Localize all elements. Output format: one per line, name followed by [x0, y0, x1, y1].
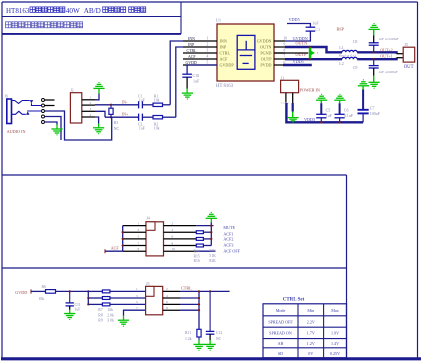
R3 designator	[114, 120, 119, 125]
svg-text:10k: 10k	[39, 297, 45, 301]
svg-text:J4: J4	[146, 216, 150, 221]
C2 value	[139, 127, 145, 131]
svg-text:2: 2	[207, 43, 209, 47]
svg-text:HT 8163: HT 8163	[216, 84, 234, 89]
junction C8 node	[373, 51, 375, 53]
wire R3 bottom	[110, 114, 112, 117]
wire jack pin3 long path	[45, 111, 112, 140]
svg-text:R9: R9	[98, 319, 103, 323]
wire R9 to J3	[110, 303, 146, 305]
connector J2	[70, 93, 81, 123]
svg-text:SPREAD OFF: SPREAD OFF	[268, 319, 293, 324]
wire jack pin4	[45, 117, 62, 141]
J2 pin stub 3	[82, 110, 95, 112]
svg-text:GVDDN: GVDDN	[257, 39, 272, 44]
R14 designator and value	[194, 249, 217, 253]
junction J4 bus row6	[210, 238, 212, 240]
J5 pin stub 1	[397, 53, 404, 55]
svg-text:OUT+1: OUT+1	[380, 53, 392, 58]
svg-text:100uF: 100uF	[370, 111, 381, 116]
net label GVDD	[15, 290, 27, 295]
connector J1	[281, 80, 299, 92]
net label ACF	[188, 55, 196, 59]
wire ACF	[105, 250, 123, 252]
svg-text:1: 1	[138, 221, 140, 225]
svg-text:HT8163: HT8163	[6, 7, 30, 15]
C12 value NC	[216, 337, 222, 341]
table row AB	[278, 341, 339, 346]
J2 pin stub 4	[82, 116, 95, 118]
wire R15 to bus	[203, 238, 211, 240]
R3 value NC	[114, 126, 120, 131]
wire C7 to bus	[362, 113, 364, 122]
junction bus row6	[198, 303, 200, 305]
J6 designator	[5, 95, 8, 99]
wire C12 stem	[209, 291, 211, 331]
svg-text:R8: R8	[98, 313, 103, 317]
wire C2 to R2	[142, 116, 153, 118]
wire PVDD thick	[283, 64, 312, 66]
wire C10 to ground	[186, 77, 188, 93]
net label MUTE	[223, 225, 235, 230]
svg-text:AB/D: AB/D	[84, 7, 101, 15]
junction J4 bus row2	[210, 224, 212, 226]
R7 designator and value	[98, 308, 113, 312]
svg-text:R15: R15	[194, 254, 200, 258]
resistor R15	[196, 237, 203, 240]
net label ACF J4	[111, 245, 120, 250]
junction C9 node	[373, 58, 375, 60]
C10 designator	[193, 73, 200, 78]
wire J2 pin3 jog	[95, 111, 105, 117]
net label BSP	[337, 27, 345, 32]
wire C9 down	[373, 59, 375, 65]
net label ACF OFF	[223, 248, 240, 253]
svg-text:NC: NC	[114, 126, 120, 131]
svg-text:5: 5	[138, 235, 140, 239]
jack pin circles	[42, 99, 45, 124]
net label IN+	[122, 112, 129, 117]
svg-text:2: 2	[166, 287, 168, 291]
svg-text:R6: R6	[42, 285, 47, 289]
power symbol above C7	[358, 79, 369, 86]
svg-text:1: 1	[136, 287, 138, 291]
wire OUTN after L1	[357, 52, 396, 53]
svg-text:C3: C3	[315, 27, 320, 32]
J3 designator	[146, 281, 150, 286]
svg-text:1.7V: 1.7V	[307, 331, 315, 336]
net label VDD5 at PVDD	[293, 59, 304, 64]
net label CTRL bottom	[181, 286, 192, 291]
svg-text:10: 10	[172, 247, 176, 251]
capacitor C6	[335, 114, 345, 118]
junction J4 bus row4	[210, 231, 212, 233]
svg-text:1uF: 1uF	[139, 98, 145, 102]
ground under C11	[64, 314, 75, 321]
J1 pin left	[285, 93, 287, 103]
jack ring to pin	[28, 110, 41, 113]
svg-text:1.2V: 1.2V	[307, 341, 315, 346]
svg-text:CTRL: CTRL	[181, 286, 192, 291]
svg-text:3: 3	[207, 49, 209, 53]
wire INP vertical	[176, 47, 183, 117]
svg-text:INN: INN	[188, 37, 195, 41]
wire C12 to ground	[209, 334, 211, 344]
capacitor C3	[306, 27, 316, 31]
J4 right pin numbers	[172, 221, 176, 251]
wire J4 right bus	[210, 218, 212, 245]
power symbol above C8	[369, 23, 380, 30]
svg-text:1.9V: 1.9V	[331, 331, 339, 336]
C3 value 1uF	[312, 20, 319, 25]
title row1 text HT8163 40W AB/D amplifier	[6, 7, 146, 15]
svg-text:GVDDP: GVDDP	[220, 63, 235, 68]
wire power bus	[286, 103, 363, 122]
svg-text:ACF2: ACF2	[223, 237, 233, 242]
net label GVDD tick	[30, 289, 32, 293]
svg-text:2.2V: 2.2V	[307, 319, 315, 324]
title row2 company name	[6, 22, 83, 28]
wire R1 right	[163, 104, 171, 106]
svg-text:10: 10	[284, 37, 288, 41]
svg-text:C9: C9	[353, 65, 358, 70]
power label VDD5 top	[289, 17, 300, 22]
svg-text:PGND: PGND	[260, 51, 271, 56]
L1 designator	[339, 45, 343, 50]
title box right edge	[180, 2, 182, 34]
resistor R11	[197, 329, 201, 337]
C9 designator	[353, 65, 358, 70]
svg-text:L2: L2	[339, 61, 343, 66]
svg-text:VDD5: VDD5	[289, 17, 300, 22]
J2 designator	[70, 89, 73, 93]
svg-text:R7: R7	[98, 308, 103, 312]
ground under R11	[193, 344, 204, 351]
resistor R14	[196, 231, 203, 234]
svg-text:5: 5	[207, 61, 209, 65]
power symbol above C5	[316, 94, 327, 100]
wire J4 row10	[196, 250, 215, 252]
U1 pin numbers right	[284, 37, 288, 65]
svg-text:R3: R3	[114, 120, 119, 125]
svg-text:30K: 30K	[209, 249, 216, 253]
ground under J2 pin4	[93, 128, 104, 134]
svg-text:10k: 10k	[154, 98, 160, 102]
connector J3	[146, 286, 163, 314]
jack tip switch arrow	[30, 100, 34, 103]
svg-text:OUT+2: OUT+2	[380, 47, 392, 52]
junction J4 left 3	[122, 231, 124, 233]
net label OUT+2	[380, 47, 392, 52]
R16 designator and value	[194, 259, 217, 263]
svg-text:C10: C10	[193, 73, 200, 78]
R1 designator	[154, 94, 159, 98]
table row SPREAD ON	[269, 331, 339, 336]
wire R6 to bus	[56, 290, 89, 292]
svg-text:Mode: Mode	[276, 308, 286, 313]
wire C11 to ground	[69, 306, 71, 314]
wire GVDDN to C3	[285, 31, 310, 41]
svg-text:ACF3: ACF3	[223, 242, 233, 247]
wire J4 row2 to bus	[196, 225, 213, 227]
sheet border left	[1, 2, 3, 359]
svg-text:0V: 0V	[308, 351, 313, 356]
wire C1 to R1	[142, 104, 153, 106]
wire R3 top	[110, 105, 112, 108]
net label OUTP	[296, 52, 308, 57]
junction bus row8	[198, 309, 200, 311]
wire C3 to VDD5	[287, 24, 310, 28]
wire GVDD to R6	[31, 290, 46, 292]
J3 right pin stubs	[163, 291, 180, 310]
C8 value	[379, 37, 399, 41]
svg-text:6: 6	[166, 300, 168, 304]
ground under jack	[51, 129, 62, 135]
svg-text:IN-: IN-	[122, 99, 128, 104]
net label GVDDN	[293, 36, 308, 41]
jack pin stub 1	[45, 99, 55, 101]
junction OUTP-speaker	[308, 58, 310, 60]
svg-text:INP: INP	[220, 45, 227, 50]
wire OUTN thick	[285, 47, 342, 52]
svg-text:1uF or0.68uF: 1uF or0.68uF	[379, 70, 398, 74]
audio jack J6 body	[7, 99, 12, 124]
net label AUDIO IN	[7, 129, 26, 134]
svg-text:3: 3	[136, 294, 138, 298]
resistor R3	[109, 108, 113, 114]
svg-text:4: 4	[172, 228, 174, 232]
svg-text:7: 7	[136, 306, 138, 310]
svg-text:C8: C8	[353, 39, 358, 44]
wire C6 to bus	[339, 118, 341, 123]
U1 left pin stubs 1-5	[183, 41, 217, 65]
svg-text:J5: J5	[404, 42, 408, 47]
wire C7 stem	[362, 86, 364, 110]
wire bus to R9	[88, 303, 102, 305]
C7 value 100uF	[370, 111, 381, 116]
R11 value 1.2k	[185, 337, 192, 341]
jack pin stub 2	[45, 105, 55, 107]
J3 right pin numbers	[166, 287, 168, 310]
svg-text:J2: J2	[70, 89, 73, 93]
L2 designator	[339, 61, 343, 66]
svg-text:OUTN: OUTN	[260, 45, 271, 50]
svg-text:1uF: 1uF	[75, 307, 81, 311]
section divider vertical	[346, 175, 348, 359]
svg-text:R16: R16	[194, 259, 200, 263]
capacitor C12	[206, 331, 215, 334]
wire R14 to bus	[203, 231, 211, 233]
R1 value 10k	[154, 98, 160, 102]
svg-text:3.0k: 3.0k	[107, 319, 114, 323]
jack tip to pin	[31, 103, 41, 105]
net label INN	[188, 37, 195, 41]
op-amp U1 body	[217, 24, 274, 81]
svg-text:1uF: 1uF	[312, 20, 319, 25]
svg-text:Min: Min	[307, 308, 314, 313]
net label ACF2	[223, 237, 233, 242]
wire R8 to J3	[110, 297, 146, 299]
jack tip contact	[12, 101, 30, 104]
title box middle line	[2, 16, 181, 18]
J4 right pin stubs	[164, 226, 197, 252]
svg-text:ACF: ACF	[188, 55, 196, 59]
junction C11 top	[69, 290, 71, 292]
svg-text:1.4V: 1.4V	[331, 341, 339, 346]
junction R3 bottom	[110, 116, 112, 118]
junction J4 left 5	[122, 238, 124, 240]
R2 value 10k	[154, 127, 160, 131]
capacitor C2	[139, 114, 143, 121]
svg-text:C5: C5	[326, 108, 331, 113]
wire C8 to power symbol	[373, 29, 375, 42]
power net label VDD5 bus	[304, 117, 315, 122]
svg-text:0.25V: 0.25V	[330, 351, 340, 356]
J2 pin stub 1	[82, 99, 95, 101]
table header row	[276, 308, 339, 313]
L value Bead or 0 ohm	[339, 53, 356, 57]
C12 designator	[216, 331, 222, 335]
ground under J3 pin7	[118, 320, 129, 327]
connector J4	[146, 222, 164, 256]
net label POWER IN	[300, 87, 320, 92]
svg-text:IN+: IN+	[122, 112, 129, 117]
svg-text:R11: R11	[185, 331, 191, 335]
svg-text:J6: J6	[5, 95, 8, 99]
R15 designator and value	[194, 254, 217, 258]
svg-text:3: 3	[138, 228, 140, 232]
svg-text:10k: 10k	[107, 308, 113, 312]
capacitor C9	[369, 66, 379, 68]
svg-text:PVDD: PVDD	[260, 63, 271, 68]
J1 pin right	[292, 93, 294, 103]
R2 designator	[154, 123, 159, 127]
svg-text:CTRL Set: CTRL Set	[283, 298, 305, 303]
connector J5	[403, 47, 415, 62]
svg-text:40W: 40W	[66, 7, 80, 15]
svg-text:VDD5: VDD5	[304, 117, 315, 122]
ground under C12	[205, 344, 216, 351]
wire GVDDP to C10	[187, 65, 217, 74]
inverted ground above J4 bus	[206, 212, 217, 219]
C9 value	[379, 70, 398, 74]
U1 internal charge-pump symbol	[237, 35, 255, 69]
J4 designator	[146, 216, 150, 221]
jack ring contact	[12, 111, 26, 114]
svg-text:ACF OFF: ACF OFF	[223, 248, 240, 253]
junction R3 top	[110, 104, 112, 106]
svg-text:C6: C6	[344, 108, 349, 113]
C5 designator	[326, 108, 331, 113]
junction J4 left 7	[122, 244, 124, 246]
wire IN- line	[95, 104, 139, 106]
svg-text:9: 9	[138, 247, 140, 251]
capacitor C11	[66, 303, 74, 306]
wire J3 right bus	[198, 291, 200, 329]
table row SD	[278, 351, 340, 356]
svg-text:MUTE: MUTE	[223, 225, 235, 230]
ground under J1	[287, 118, 298, 123]
svg-text:1.2k: 1.2k	[185, 337, 192, 341]
net label ACF3	[223, 242, 233, 247]
svg-text:INP: INP	[188, 43, 195, 47]
speaker symbol across outputs	[309, 47, 318, 59]
C1 designator	[138, 94, 143, 98]
junction R7 bus	[87, 290, 89, 292]
J4 notch	[146, 222, 155, 231]
wire bus to R7	[88, 290, 102, 292]
svg-text:INN: INN	[220, 39, 227, 44]
svg-text:OUT: OUT	[404, 65, 414, 70]
ground under C10	[182, 93, 193, 100]
resistor R7	[102, 290, 110, 293]
U1 pin numbers left	[207, 37, 209, 65]
J1 designator	[281, 75, 285, 80]
J2 pin stub 2	[82, 104, 95, 106]
C1 value	[139, 98, 145, 102]
C6 value 0.1uF	[344, 113, 354, 118]
R9 designator and value	[98, 319, 114, 323]
svg-text:1: 1	[207, 37, 209, 41]
svg-text:AUDIO IN: AUDIO IN	[7, 129, 26, 134]
wire J3 row4 to bus	[180, 297, 199, 299]
svg-text:J3: J3	[146, 281, 150, 286]
svg-text:7: 7	[138, 241, 140, 245]
wire R16 to bus	[203, 245, 211, 247]
wire INN vertical	[170, 41, 183, 105]
sheet border bottom thick	[1, 357, 421, 360]
wire J1 right pin down	[292, 103, 294, 112]
junction C12 top	[209, 290, 211, 292]
wire J3 row8 to bus	[180, 309, 199, 311]
J5 pin stub 2	[397, 57, 404, 59]
svg-text:L1: L1	[339, 45, 343, 50]
wire left bus J3	[87, 291, 89, 304]
svg-text:VDD5: VDD5	[293, 59, 304, 64]
junction bus row4	[198, 297, 200, 299]
net label ACF tick	[104, 249, 106, 253]
C8 designator	[353, 39, 358, 44]
resistor R8	[102, 297, 110, 300]
svg-text:Max: Max	[331, 308, 339, 313]
R8 designator and value	[98, 313, 114, 317]
J2 pin numbers	[90, 96, 92, 117]
svg-text:SD: SD	[278, 351, 283, 356]
U1 part number HT 8163	[216, 84, 234, 89]
C5 value 1uF	[326, 113, 333, 118]
svg-text:J1: J1	[281, 75, 285, 80]
J4 left pin stubs	[123, 226, 146, 252]
svg-text:0.1uF: 0.1uF	[344, 113, 354, 118]
net label OUT+1	[380, 53, 392, 58]
wire OUTP after L2	[357, 58, 396, 60]
wire J3 row6 to bus	[180, 303, 199, 305]
svg-text:CTRL: CTRL	[187, 49, 198, 53]
junction CTRL bus top	[198, 290, 200, 292]
net label IN-	[122, 99, 128, 104]
svg-text:BSP: BSP	[337, 27, 345, 32]
wire C5 to bus	[320, 118, 322, 123]
U1 right pin names inside	[257, 39, 273, 68]
svg-text:OUTP: OUTP	[261, 57, 272, 62]
title box bottom line	[2, 33, 181, 35]
svg-text:82K: 82K	[209, 259, 216, 263]
svg-text:4: 4	[207, 55, 209, 59]
inductor L1	[342, 50, 357, 52]
J5 label OUT	[404, 65, 414, 70]
svg-text:ACF: ACF	[111, 245, 120, 250]
capacitor C10	[182, 74, 192, 77]
